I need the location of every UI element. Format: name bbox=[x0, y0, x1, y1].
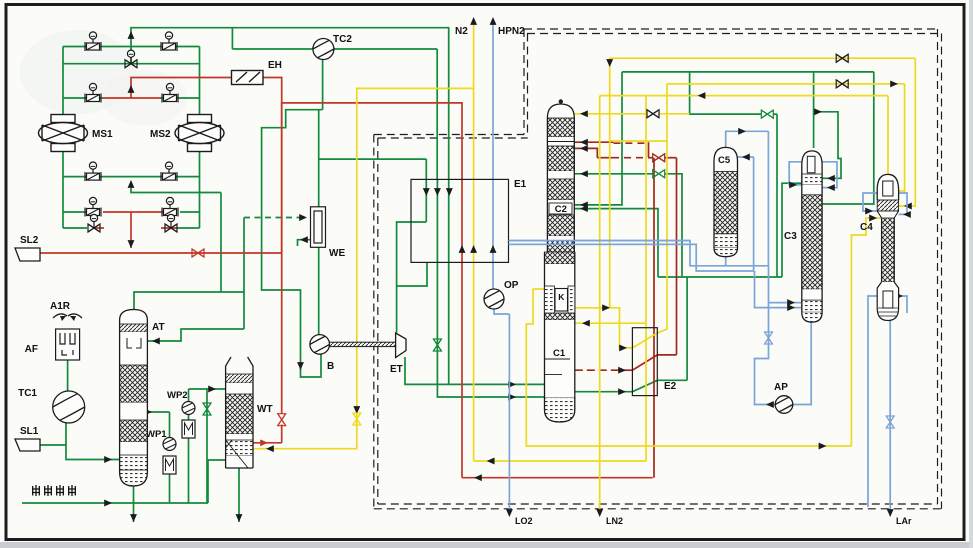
cold box boundary left vertical bbox=[373, 135, 375, 509]
wire ET outlet to column C1 bbox=[405, 357, 545, 384]
valve V7 MS2 bottom bbox=[161, 162, 177, 181]
valve V1 MS1 top inlet bbox=[85, 32, 101, 51]
valve V22 green C2 feed bbox=[653, 170, 665, 178]
wire SL1 to TC1 line bbox=[40, 444, 66, 446]
aftercooler WE bbox=[311, 207, 326, 248]
wire MS row 6 left green bbox=[63, 227, 87, 229]
wire WT bottom drain bbox=[238, 468, 240, 522]
wire blue into C3 bottom a bbox=[769, 266, 802, 303]
wire water to WT bottom bbox=[208, 460, 226, 503]
wire booster B discharge through WE bbox=[318, 110, 320, 335]
wire red through E1 bbox=[461, 179, 463, 262]
wire blue into C3 bottom b bbox=[755, 271, 802, 308]
svg-text:C4: C4 bbox=[860, 222, 873, 233]
silencer SL1 bbox=[15, 439, 40, 451]
column C4 shell bbox=[877, 174, 898, 200]
wire Y3 leg down to bottom bus bbox=[645, 96, 647, 461]
wire MS1 left header vertical bbox=[62, 47, 64, 123]
wire red to E1 warm end bbox=[282, 103, 462, 253]
valve V8 MS1 regen bottom bbox=[85, 197, 101, 216]
wire red return bus bbox=[462, 477, 653, 479]
wire C2 maroon upper feed bbox=[574, 141, 613, 143]
svg-text:TC2: TC2 bbox=[333, 34, 352, 45]
label external water supply (Chinese) bbox=[32, 485, 76, 496]
wire bus A up to C4 left bbox=[851, 218, 881, 446]
wire Y3 leg from C4 dome top bbox=[887, 96, 889, 174]
wire HPN2 product line through E1 to OP bbox=[492, 24, 494, 290]
wire Y1 left leg down to K line bbox=[609, 58, 611, 308]
wire C4 condenser loop left bbox=[863, 193, 877, 211]
column C5 shell bbox=[714, 147, 738, 171]
wire WP2 suction bbox=[188, 437, 190, 503]
air intake A1R bbox=[53, 314, 82, 318]
wire C5 overhead bbox=[726, 131, 769, 147]
wire MS1 bottom vertical bbox=[62, 144, 64, 229]
wire valve outlet down to transfer bus bbox=[665, 174, 682, 277]
wire yellow return into C1 bbox=[575, 322, 646, 324]
wire red into WT bbox=[253, 442, 282, 444]
svg-text:ET: ET bbox=[390, 364, 403, 375]
wire MS2 top vertical bbox=[199, 47, 201, 123]
column AT internals bbox=[120, 324, 148, 332]
svg-text:LN2: LN2 bbox=[606, 516, 623, 526]
wire maroon E2 outlet bbox=[657, 354, 676, 356]
svg-text:AT: AT bbox=[152, 322, 165, 333]
silencer SL2 bbox=[15, 248, 40, 261]
svg-text:LAr: LAr bbox=[896, 516, 912, 526]
wire yellow into C1 top left bbox=[533, 288, 545, 290]
wire yellow cross header bbox=[610, 140, 667, 142]
wire C1 dip tube diagonal bbox=[561, 392, 573, 411]
wire MS row 3 right green bbox=[160, 97, 200, 99]
svg-text:WE: WE bbox=[329, 248, 345, 259]
wire row5 red down to SL2 line bbox=[130, 212, 132, 248]
valve V15 WT drain bbox=[203, 403, 211, 415]
wire E2 green outlet bbox=[657, 379, 687, 381]
column C3 shell bbox=[802, 151, 822, 174]
svg-text:WP2: WP2 bbox=[167, 390, 188, 401]
wire maroon down to E2 bbox=[676, 158, 678, 355]
column C2 internals bbox=[547, 118, 574, 137]
wire green to C3 dome top bbox=[813, 72, 815, 148]
svg-text:A1R: A1R bbox=[50, 301, 71, 312]
column WT internals bbox=[226, 374, 253, 383]
wire WE outlet feed to E1 pass 1 bbox=[319, 158, 427, 160]
wire E1 pass green 1 bbox=[425, 179, 427, 222]
wire WP2 riser bbox=[188, 402, 190, 421]
wire yellow C1 to bottom bus A bbox=[526, 289, 851, 446]
wire WP1 suction bbox=[169, 472, 171, 503]
electric heater EH bbox=[232, 71, 264, 85]
wire C5 bottom drop bbox=[725, 257, 727, 266]
valve V17 yellow reflux a bbox=[647, 110, 659, 118]
wire MS row 6 red b bbox=[161, 227, 178, 229]
cold box boundary upper-left vertical bbox=[523, 29, 525, 135]
valve V11 MS2 vent bbox=[165, 224, 177, 232]
water pump WP1 bbox=[163, 438, 176, 451]
svg-text:SL2: SL2 bbox=[20, 235, 39, 246]
wire yellow bus Y3 from C4 dome bbox=[600, 95, 888, 97]
svg-text:WP1: WP1 bbox=[146, 429, 167, 440]
wire C4 liquid down to boundary bbox=[868, 296, 877, 507]
valve V16 throttle to C1 bbox=[433, 339, 441, 351]
wire yellow bus Y2 bbox=[667, 83, 905, 85]
wire blue valve line to AP bbox=[755, 303, 776, 405]
wire WP2 discharge to WT bbox=[189, 388, 226, 390]
expansion turbine ET bbox=[396, 333, 406, 358]
wire external water supply header bbox=[22, 502, 208, 504]
valve V6 MS1 bottom bbox=[85, 162, 101, 181]
wire water feed to AT upper bbox=[147, 329, 244, 341]
wire C1 rich liquid to E2 (dashed) bbox=[575, 369, 620, 371]
wire TC1 discharge to AT bottom bbox=[66, 423, 120, 460]
wire C4 right stub bbox=[899, 296, 907, 313]
svg-text:EH: EH bbox=[268, 60, 282, 71]
svg-text:TC1: TC1 bbox=[18, 388, 37, 399]
valve V12 SL2 vent bbox=[192, 249, 204, 257]
molecular sieve MS1 bbox=[39, 115, 88, 152]
svg-text:E2: E2 bbox=[664, 381, 677, 392]
wire C1 bottom liquid to E2 bbox=[575, 391, 633, 393]
wire green down to transfer bus bbox=[776, 114, 778, 277]
wire E1 outlet down bbox=[448, 262, 450, 384]
cold box boundary mid horizontal bbox=[374, 134, 524, 136]
svg-text:C2: C2 bbox=[555, 204, 567, 215]
valve V13 red to WT bbox=[278, 414, 286, 426]
valve V24 LAr bbox=[886, 416, 894, 428]
wire green bus down to C3 upper bbox=[822, 72, 874, 204]
valve V20 bus Y2 bbox=[836, 80, 848, 88]
wire C2 feed with valve from heat bus bbox=[574, 173, 652, 175]
recycle compressor TC2 bbox=[313, 39, 334, 60]
valve V14 N2 to WT bbox=[353, 413, 361, 425]
wire WT drain line with valve bbox=[206, 389, 208, 503]
wire MS row 5 red center bbox=[103, 211, 163, 213]
wire regeneration heater return to EH bbox=[131, 78, 232, 99]
wire regen bus to TC2 bbox=[231, 28, 233, 49]
wire OP discharge bbox=[494, 309, 509, 314]
svg-text:C3: C3 bbox=[784, 231, 797, 242]
wire C3 condenser loop left bbox=[789, 162, 802, 185]
air filter AF bbox=[56, 329, 80, 360]
column C3 internals bbox=[802, 174, 822, 185]
wire green branch to C3 reflux bbox=[814, 112, 841, 179]
wire E1 side draw to expansion turbine ET bbox=[397, 222, 427, 333]
cold box boundary bottom bbox=[374, 508, 942, 510]
wire MS top valve row 1 bbox=[63, 46, 200, 48]
svg-text:WT: WT bbox=[257, 404, 273, 415]
wire TC2 suction line bbox=[232, 48, 313, 50]
wire regeneration gas header to E1 bbox=[131, 28, 449, 180]
wire MS outlet jog to air line bbox=[131, 183, 221, 193]
wire MS row 4 bbox=[63, 176, 200, 178]
valve V23 blue AP loop bbox=[765, 332, 773, 344]
wire red valve drop at WT bbox=[281, 425, 283, 443]
condenser K bbox=[555, 289, 568, 312]
wire bottom bus B bbox=[474, 460, 646, 462]
water pump WP2 bbox=[182, 402, 195, 415]
wire AF to TC1 bbox=[67, 360, 69, 391]
wire AT drain bbox=[133, 486, 135, 522]
subcooler E2 bbox=[632, 328, 657, 396]
wire MS row 3 left green bbox=[63, 97, 103, 99]
wire air line down to AT header bbox=[220, 193, 222, 293]
wire MS valve row 2 (crossover) bbox=[63, 63, 200, 65]
column C1 internals bbox=[545, 252, 575, 264]
liquid oxygen pump OP bbox=[484, 289, 504, 309]
wire TC2 discharge down to E1 bbox=[436, 49, 438, 179]
wire blue transfer lower bbox=[509, 244, 755, 271]
svg-text:B: B bbox=[327, 361, 334, 372]
wire maroon down to red bus bbox=[653, 158, 655, 478]
wire MS row 5 left green bbox=[63, 211, 93, 213]
wire E2 maroon diagonal bbox=[632, 355, 657, 370]
valve V18 green bus branch bbox=[761, 110, 773, 118]
wire E2 green pass diagonal bbox=[632, 380, 657, 391]
svg-text:HPN2: HPN2 bbox=[498, 26, 525, 37]
wire AP to C3 bottom bbox=[793, 322, 812, 404]
liquid argon pump AP bbox=[775, 396, 793, 414]
wire maroon dashed run bbox=[612, 157, 649, 159]
molecular sieve MS2 bbox=[175, 115, 224, 152]
wire E2 warm green up bbox=[686, 277, 688, 380]
svg-text:MS1: MS1 bbox=[92, 129, 113, 140]
column WT shell bbox=[226, 357, 253, 374]
wire dashed instrument line to WE bbox=[244, 217, 303, 219]
wire maroon jog down bbox=[648, 142, 650, 158]
wire blue transfer pair overlay bbox=[509, 240, 691, 242]
wire MS2 bottom vertical bbox=[199, 144, 201, 229]
svg-text:N2: N2 bbox=[455, 26, 468, 37]
wire C2 lower feed to transfer bus bbox=[574, 209, 658, 277]
wire Y1 down to C4 bbox=[899, 58, 916, 206]
svg-text:MS2: MS2 bbox=[150, 129, 171, 140]
wire LN2 product line bbox=[599, 96, 601, 511]
svg-text:AF: AF bbox=[25, 344, 38, 355]
wire C2 maroon lower feed bbox=[574, 148, 597, 157]
column C4 body bbox=[882, 218, 895, 282]
wire E1 bottom loop bbox=[397, 262, 427, 286]
wire WE outlet stub bbox=[298, 240, 311, 246]
wire E2 yellow diagonal bbox=[632, 333, 657, 348]
wire vertical to AT feed bbox=[243, 218, 245, 330]
wire Y2 down to C4 top bbox=[899, 84, 905, 191]
wire MS row 5 right green bbox=[180, 211, 200, 213]
column AT shell bbox=[120, 310, 148, 325]
svg-text:K: K bbox=[558, 292, 565, 302]
svg-text:OP: OP bbox=[504, 280, 519, 291]
turbine shaft bbox=[330, 342, 396, 346]
wire yellow bus Y1 bbox=[610, 57, 916, 59]
wire E1 pass green 2 bbox=[436, 179, 438, 262]
wire blue transfer upper bbox=[509, 241, 769, 266]
valve V19 bus Y1 bbox=[836, 54, 848, 62]
wire top green bus bbox=[622, 71, 874, 73]
wire TC2 discharge bbox=[334, 48, 437, 50]
wire WT heated nitrogen line bbox=[253, 88, 474, 448]
svg-text:C5: C5 bbox=[718, 155, 731, 166]
wire E2 yellow up to Y2 bbox=[657, 84, 667, 333]
wire EH outlet down main red bbox=[263, 78, 282, 415]
wire MS row 6 right green bbox=[178, 227, 200, 229]
column C2 shell bbox=[547, 104, 574, 118]
column C5 internals bbox=[714, 172, 738, 234]
wire air line to AT top bbox=[134, 292, 244, 310]
main heat exchanger E1 bbox=[411, 179, 509, 262]
wire recycle jog down to booster B suction bbox=[262, 110, 323, 377]
svg-text:SL1: SL1 bbox=[20, 426, 39, 437]
wire red cold end down bbox=[461, 262, 463, 477]
wire transfer bus horizontal bbox=[658, 276, 782, 278]
wire C3 condenser loop right bbox=[822, 162, 837, 188]
wire E1 throttle line to column C1 bbox=[437, 262, 544, 397]
valve V21 maroon bbox=[653, 154, 665, 162]
cold box boundary right vertical bbox=[941, 34, 943, 509]
wire TC2 bottom leg bbox=[322, 60, 324, 110]
wire C5 return riser bbox=[753, 157, 755, 271]
wire C4 condenser loop right bbox=[899, 193, 907, 214]
wire C5 overhead down leg bbox=[767, 131, 769, 265]
wire WP1 discharge to AT bbox=[147, 411, 169, 413]
svg-text:C1: C1 bbox=[553, 348, 566, 359]
valve V3 crossover bbox=[125, 60, 137, 68]
main air compressor TC1 bbox=[53, 391, 85, 423]
valve V2 MS2 top inlet bbox=[161, 32, 177, 51]
svg-text:AP: AP bbox=[774, 382, 788, 393]
wire condenser K outlet to E2 bbox=[569, 308, 632, 348]
wire N2 product line through E1 bbox=[473, 24, 475, 461]
wire maroon after valve bbox=[665, 157, 677, 159]
cold box boundary top bbox=[524, 28, 938, 30]
valve V5 MS2 regen bbox=[162, 83, 178, 102]
wire C5 return arrow bbox=[738, 156, 754, 158]
svg-text:LO2: LO2 bbox=[515, 516, 533, 526]
valve V10 MS1 vent bbox=[88, 224, 100, 232]
wire C2 reflux yellow with valve bbox=[574, 113, 646, 115]
wire top gas bus down to C2 bbox=[574, 72, 622, 205]
booster B bbox=[310, 335, 330, 355]
wire MS row 6 red a bbox=[93, 227, 104, 229]
wire MS row 3 red center bbox=[103, 97, 160, 99]
wire transfer bus up leg into C3 bbox=[782, 183, 802, 277]
wire E1 pass green 3 bbox=[448, 179, 450, 262]
wire SL2 vent line bbox=[40, 252, 282, 254]
svg-text:E1: E1 bbox=[514, 179, 527, 190]
wire green bus branch with valve bbox=[690, 72, 761, 114]
valve V9 MS2 regen bottom bbox=[162, 197, 178, 216]
wire WP1 to AT bbox=[169, 412, 171, 438]
wire LAr product line bbox=[889, 321, 891, 512]
wire LO2 product line bbox=[508, 314, 510, 511]
valve V4 MS1 regen bbox=[85, 83, 101, 102]
